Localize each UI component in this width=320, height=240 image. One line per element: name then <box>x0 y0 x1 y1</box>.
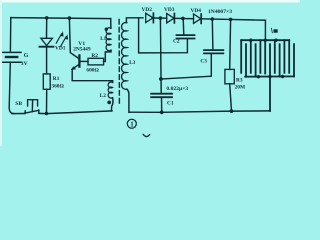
figure number circle 1 <box>127 119 136 128</box>
svg-text:SB: SB <box>15 101 22 107</box>
wire: bottom rail left section <box>12 113 25 115</box>
junction dot R3 bottom <box>230 109 234 113</box>
svg-text:VD1: VD1 <box>55 45 66 51</box>
capacitor C1 <box>151 94 172 113</box>
white scan edge top <box>0 0 300 3</box>
junction dots mesh bottom rail <box>257 75 260 78</box>
wire: mesh top feed <box>264 20 266 40</box>
wire: R1 to bottom rail <box>46 89 48 113</box>
svg-text:L3: L3 <box>129 60 135 66</box>
transformer winding L3 <box>122 18 143 112</box>
wire: emitter down and right to L2 <box>72 69 112 80</box>
resistor R3 <box>225 19 234 111</box>
LED VD1 <box>40 31 69 46</box>
svg-text:R1: R1 <box>53 76 60 82</box>
wire: collector vertical <box>69 18 79 59</box>
svg-text:1: 1 <box>130 122 134 129</box>
svg-text:20M: 20M <box>235 85 245 91</box>
resistor R2 <box>88 58 104 65</box>
junction dot <box>45 112 49 116</box>
junction dot C3 branch <box>211 17 215 21</box>
diode VD2 <box>146 13 154 22</box>
transistor V1 <box>71 55 79 70</box>
junction dot R3 branch <box>229 18 233 22</box>
svg-text:2N5449: 2N5449 <box>73 46 91 52</box>
wire: node1 vertical down <box>159 18 162 93</box>
junction dots mesh top rail <box>249 39 252 42</box>
wire: battery positive lead <box>9 18 11 51</box>
svg-text:0.022μ×3: 0.022μ×3 <box>166 86 188 92</box>
capacitor C3 <box>161 19 223 79</box>
svg-text:360Ω: 360Ω <box>51 83 64 89</box>
wire: top rail left section <box>11 18 111 19</box>
junction dot collector branch <box>68 16 72 20</box>
svg-text:VD2: VD2 <box>142 7 153 13</box>
switch SB <box>25 100 39 114</box>
junction dot node1 <box>159 16 163 20</box>
white scan edge left <box>0 0 2 146</box>
svg-text:L2: L2 <box>100 93 106 99</box>
junction dot node2 <box>181 17 185 21</box>
junction dot C1 bottom <box>160 110 164 114</box>
junction dot on top rail (LED branch) <box>45 16 49 20</box>
wire: top right rail to mesh <box>201 19 265 20</box>
tilde mark <box>143 134 149 136</box>
resistor R1 <box>43 74 50 89</box>
svg-text:C1: C1 <box>167 101 174 107</box>
svg-text:C3: C3 <box>200 58 207 64</box>
transformer core dashed line <box>118 20 120 104</box>
wire: LED to R1 <box>46 47 48 74</box>
wire: base to R2 <box>79 60 88 62</box>
wire: node1 between diodes <box>153 17 166 19</box>
wire: LED branch from top rail <box>46 18 48 38</box>
wire: bottom rail right section <box>129 111 270 112</box>
capacitor C2 <box>139 18 195 53</box>
phase dot L2 <box>107 101 111 105</box>
battery G 3V <box>3 52 21 62</box>
svg-text:G: G <box>24 53 29 59</box>
wire: R2 right to L1 bottom <box>104 50 111 61</box>
svg-text:600Ω: 600Ω <box>86 68 99 74</box>
transformer winding L2 <box>108 81 113 111</box>
svg-text:R2: R2 <box>91 53 98 59</box>
diode VD4 <box>194 14 202 23</box>
mesh grid electrode <box>241 40 294 111</box>
wire: bottom rail from switch to L2 <box>39 111 112 114</box>
small mark near mesh top <box>272 28 278 33</box>
svg-text:VD3: VD3 <box>164 7 175 13</box>
svg-text:R3: R3 <box>236 77 243 83</box>
transformer winding L1 <box>106 19 111 51</box>
svg-text:L1: L1 <box>100 36 106 42</box>
diode VD3 <box>167 14 175 23</box>
junction dot mid node <box>159 77 163 81</box>
svg-text:VD4: VD4 <box>191 8 202 14</box>
svg-text:3V: 3V <box>21 61 28 67</box>
svg-text:C2: C2 <box>173 39 180 45</box>
svg-text:1N4007×3: 1N4007×3 <box>208 9 232 15</box>
phase dot L1 <box>105 28 108 31</box>
wire: battery negative lead down to bottom rail <box>9 63 14 114</box>
wire: node2 between diodes <box>174 17 193 19</box>
